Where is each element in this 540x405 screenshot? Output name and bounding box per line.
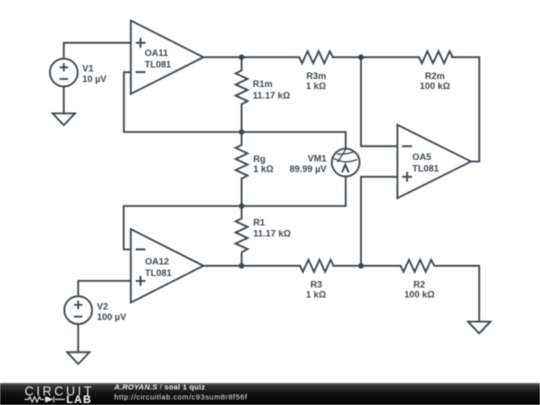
svg-text:R1m: R1m bbox=[253, 79, 273, 89]
svg-text:11.17 kΩ: 11.17 kΩ bbox=[253, 90, 291, 100]
svg-text:1 kΩ: 1 kΩ bbox=[306, 81, 326, 91]
svg-text:R2m: R2m bbox=[425, 71, 445, 81]
svg-text:http://circuitlab.com/c93sum8r: http://circuitlab.com/c93sum8r8f56f bbox=[114, 392, 248, 401]
svg-text:V1: V1 bbox=[82, 63, 93, 73]
svg-text:10 µV: 10 µV bbox=[82, 74, 107, 84]
svg-text:89.99 µV: 89.99 µV bbox=[290, 164, 328, 174]
svg-text:OA12: OA12 bbox=[145, 256, 169, 266]
svg-text:100 µV: 100 µV bbox=[97, 312, 127, 322]
svg-text:1 kΩ: 1 kΩ bbox=[306, 290, 326, 300]
svg-text:A.ROYAN.S / soal 1 quiz: A.ROYAN.S / soal 1 quiz bbox=[113, 382, 205, 391]
svg-text:VM1: VM1 bbox=[308, 154, 327, 164]
svg-text:OA11: OA11 bbox=[145, 48, 169, 58]
svg-text:V2: V2 bbox=[97, 302, 108, 312]
svg-text:100 kΩ: 100 kΩ bbox=[420, 81, 450, 91]
svg-text:Rg: Rg bbox=[253, 154, 265, 164]
svg-text:R1: R1 bbox=[253, 218, 265, 228]
svg-text:1 kΩ: 1 kΩ bbox=[253, 164, 273, 174]
svg-text:TL081: TL081 bbox=[145, 268, 172, 278]
svg-text:LAB: LAB bbox=[66, 394, 92, 405]
svg-text:11.17 kΩ: 11.17 kΩ bbox=[253, 229, 291, 239]
svg-text:R2: R2 bbox=[413, 280, 425, 290]
svg-text:OA5: OA5 bbox=[412, 152, 431, 162]
svg-text:R3: R3 bbox=[310, 280, 322, 290]
svg-text:R3m: R3m bbox=[306, 71, 326, 81]
svg-text:TL081: TL081 bbox=[145, 59, 172, 69]
svg-text:TL081: TL081 bbox=[412, 164, 439, 174]
svg-text:100 kΩ: 100 kΩ bbox=[404, 290, 434, 300]
